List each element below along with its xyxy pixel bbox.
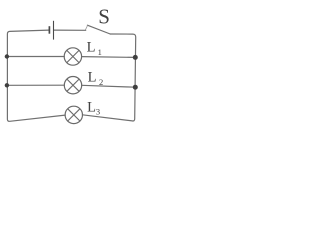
svg-text:1: 1: [98, 47, 102, 57]
svg-text:L: L: [87, 99, 96, 115]
svg-text:L: L: [88, 69, 97, 85]
svg-text:S: S: [98, 5, 110, 29]
svg-text:3: 3: [96, 106, 100, 116]
svg-text:2: 2: [99, 77, 103, 87]
svg-text:L: L: [87, 40, 96, 56]
